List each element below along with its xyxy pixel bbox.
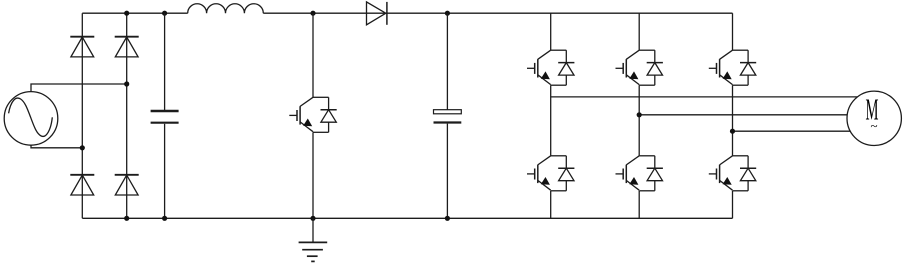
capacitor C1 — [151, 111, 179, 123]
wire C2 bottom — [446, 124, 448, 219]
IGBT Q4 (inverter phase B high side) — [616, 50, 663, 85]
IGBT Q1 (boost switch with antiparallel diode) — [289, 97, 336, 132]
junction dot bottom bus / right leg — [124, 216, 129, 221]
wire inverter leg A collector — [550, 13, 552, 50]
wire inverter leg A emitter to bus — [550, 191, 552, 219]
wire C1 bottom — [164, 124, 166, 219]
wire C1 top — [164, 13, 166, 110]
junction dot top bus / C1 — [162, 11, 167, 16]
IGBT Q3 (inverter phase A low side) — [527, 156, 574, 191]
wire phase C output — [733, 130, 852, 132]
IGBT Q6 (inverter phase C high side) — [709, 50, 756, 85]
svg-text:~: ~ — [870, 118, 877, 133]
IGBT Q2 (inverter phase A high side) — [527, 50, 574, 85]
wire bottom DC bus — [82, 217, 732, 219]
diode D4 (bridge, lower-right) — [115, 175, 139, 195]
junction dot bottom bus / C2 — [445, 216, 450, 221]
wire inverter leg B collector — [638, 13, 640, 50]
wire right rectifier leg — [126, 13, 128, 218]
wire inverter leg C midpoint — [732, 85, 734, 156]
junction dot phase C tap — [730, 129, 735, 134]
junction dot top bus / C2 — [445, 11, 450, 16]
junction dot bottom bus / boost leg — [310, 216, 315, 221]
wire top DC bus (inductor to right end) — [263, 12, 732, 14]
wire AC top lead — [31, 84, 127, 92]
IGBT Q5 (inverter phase B low side) — [616, 156, 663, 191]
wire inverter leg C emitter to bus — [732, 191, 734, 219]
wire C2 top — [446, 13, 448, 110]
diode D3 (bridge, lower-left) — [70, 175, 94, 195]
wire top DC bus (left section to inductor) — [82, 12, 187, 14]
junction dot top bus / right leg — [124, 11, 129, 16]
IGBT Q7 (inverter phase C low side) — [709, 156, 756, 191]
wire boost IGBT emitter — [312, 132, 314, 218]
junction dot bottom bus / C1 — [162, 216, 167, 221]
diode D1 (bridge, upper-left) — [70, 37, 94, 57]
junction dot AC top lead / right leg — [124, 81, 129, 86]
wire AC bottom lead — [31, 145, 82, 148]
ground — [299, 218, 328, 261]
junction dot top bus / boost leg — [310, 11, 315, 16]
wire left rectifier leg — [81, 13, 83, 218]
wire boost IGBT collector — [312, 13, 314, 97]
junction dot AC bottom lead / left leg — [80, 145, 85, 150]
wire phase A output — [551, 96, 858, 98]
diode D5 (boost diode on top bus) — [367, 2, 387, 25]
capacitor C2 (DC link) — [434, 110, 462, 123]
wire inverter leg A midpoint — [550, 85, 552, 156]
junction dot phase B tap — [637, 112, 642, 117]
wire inverter leg C collector — [732, 13, 734, 50]
AC source V1 — [4, 92, 58, 146]
wire inverter leg B emitter to bus — [638, 191, 640, 219]
wire inverter leg B midpoint — [638, 85, 640, 156]
inductor L1 — [188, 4, 264, 13]
motor M — [847, 91, 901, 145]
diode D2 (bridge, upper-right) — [115, 37, 139, 57]
wire phase B output — [639, 114, 848, 116]
